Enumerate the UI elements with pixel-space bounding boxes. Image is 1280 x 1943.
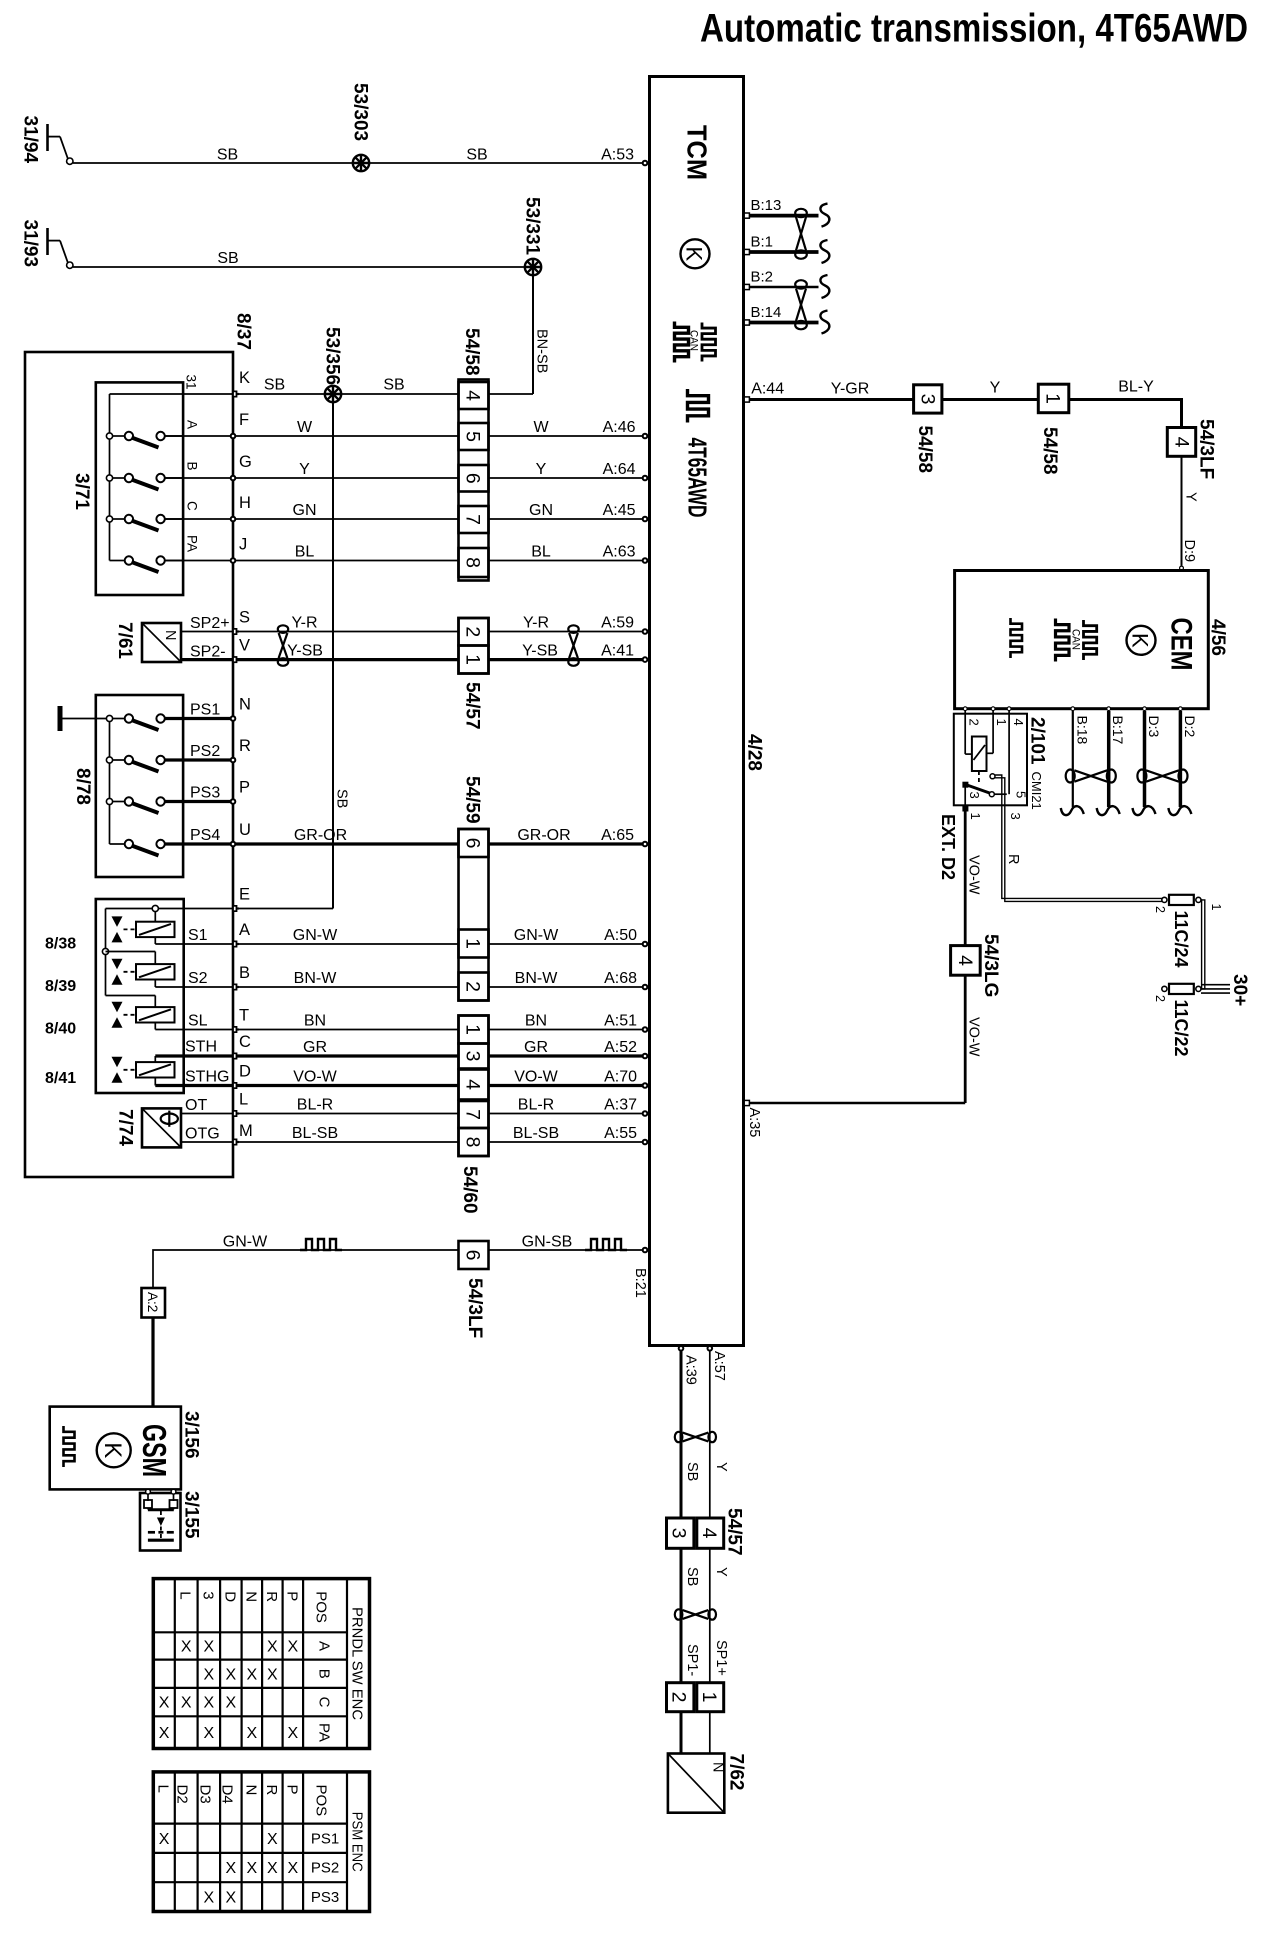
svg-text:SB: SB [217,147,238,164]
svg-text:31/94: 31/94 [20,116,41,164]
svg-text:PS2: PS2 [311,1860,339,1877]
svg-text:SB: SB [684,1567,700,1586]
svg-text:CEM: CEM [1165,618,1198,671]
svg-text:Y: Y [713,1567,729,1577]
svg-text:X: X [159,1695,170,1712]
svg-text:2: 2 [1153,906,1167,913]
svg-text:X: X [288,1638,299,1655]
svg-text:30+: 30+ [1229,974,1250,1006]
svg-text:53/331: 53/331 [522,197,543,256]
svg-text:Y-R: Y-R [291,615,317,632]
svg-text:SP2+: SP2+ [190,615,230,632]
svg-text:1: 1 [462,938,484,949]
svg-text:54/3LG: 54/3LG [980,934,1001,997]
svg-text:X: X [247,1666,258,1683]
svg-text:VO-W: VO-W [514,1069,558,1086]
svg-text:CAN: CAN [1070,629,1082,650]
svg-text:BL-Y: BL-Y [1118,378,1154,395]
svg-text:Y: Y [713,1462,729,1472]
svg-text:2: 2 [1153,995,1167,1002]
svg-text:4/56: 4/56 [1207,619,1228,656]
svg-text:54/3LF: 54/3LF [1196,419,1217,479]
svg-text:1: 1 [1209,904,1223,911]
svg-text:N: N [710,1762,726,1772]
svg-text:PS4: PS4 [190,827,220,844]
svg-text:A:39: A:39 [683,1355,699,1385]
svg-text:BN: BN [304,1013,326,1030]
svg-text:4: 4 [462,390,484,401]
svg-text:L: L [177,1591,194,1599]
svg-text:X: X [204,1666,215,1683]
svg-text:B:2: B:2 [751,269,774,286]
svg-text:3: 3 [668,1528,690,1539]
svg-text:3: 3 [967,792,982,799]
svg-text:P: P [283,1591,300,1601]
svg-text:GSM: GSM [136,1424,173,1477]
svg-text:GN-W: GN-W [293,927,338,944]
svg-text:3/71: 3/71 [71,473,92,510]
svg-text:31/93: 31/93 [20,220,41,268]
svg-text:TCM: TCM [682,125,713,180]
svg-text:T: T [239,1007,249,1025]
svg-text:BL: BL [295,544,315,561]
svg-text:1: 1 [968,813,983,820]
svg-text:PA: PA [185,535,200,552]
svg-text:B: B [239,964,250,982]
svg-text:A:50: A:50 [604,927,637,944]
svg-text:S2: S2 [188,970,208,987]
svg-text:M: M [239,1122,253,1140]
svg-text:BL-SB: BL-SB [292,1125,338,1142]
svg-text:BN-W: BN-W [515,970,559,987]
svg-text:Y-SB: Y-SB [287,643,323,660]
svg-text:54/59: 54/59 [462,776,483,824]
svg-text:H: H [239,494,251,512]
svg-text:B:21: B:21 [632,1268,648,1298]
svg-text:4: 4 [1171,437,1193,448]
svg-text:X: X [204,1695,215,1712]
svg-text:EXT. D2: EXT. D2 [938,814,958,880]
svg-text:P: P [239,779,250,797]
svg-text:STH: STH [185,1039,217,1056]
svg-text:54/57: 54/57 [724,1508,745,1556]
svg-text:K: K [99,1442,126,1458]
svg-text:R: R [263,1785,280,1796]
svg-text:3: 3 [199,1591,216,1599]
svg-text:6: 6 [462,838,484,849]
svg-text:SB: SB [383,377,404,394]
svg-text:BN: BN [525,1013,547,1030]
svg-text:3: 3 [917,394,939,405]
svg-text:N: N [162,630,178,640]
svg-text:1: 1 [462,654,484,665]
svg-text:Y-SB: Y-SB [522,643,558,660]
svg-text:A:64: A:64 [603,461,636,478]
svg-text:PRNDL SW ENC: PRNDL SW ENC [348,1607,365,1720]
svg-text:SB: SB [684,1462,700,1481]
svg-text:A:45: A:45 [603,502,636,519]
svg-text:3/155: 3/155 [181,1491,202,1539]
svg-text:11C/22: 11C/22 [1171,1000,1191,1057]
svg-text:K: K [239,369,250,387]
svg-text:Y: Y [299,461,310,478]
svg-text:4: 4 [1011,719,1026,726]
svg-text:8: 8 [462,557,484,568]
svg-text:X: X [226,1889,237,1906]
svg-text:X: X [181,1695,192,1712]
svg-text:7: 7 [462,1109,484,1120]
svg-text:X: X [267,1638,278,1655]
svg-text:SL: SL [188,1013,208,1030]
svg-text:A: A [239,921,250,939]
svg-text:8/78: 8/78 [72,768,93,805]
svg-text:D: D [221,1591,238,1602]
svg-text:Y: Y [536,461,547,478]
svg-text:P: P [283,1785,300,1795]
svg-text:R: R [263,1591,280,1602]
svg-text:7: 7 [462,514,484,525]
svg-text:7/62: 7/62 [726,1754,747,1791]
svg-text:GN: GN [529,502,553,519]
svg-text:GR: GR [303,1039,327,1056]
svg-text:A:68: A:68 [604,970,637,987]
svg-text:8/41: 8/41 [45,1070,76,1087]
svg-text:D2: D2 [174,1785,191,1804]
svg-text:4T65AWD: 4T65AWD [683,438,713,518]
svg-text:54/60: 54/60 [459,1166,480,1214]
svg-text:X: X [247,1860,258,1877]
svg-text:S: S [239,609,250,627]
svg-text:D4: D4 [218,1785,235,1804]
svg-text:BN-W: BN-W [294,970,338,987]
svg-text:SP2-: SP2- [190,644,226,661]
svg-text:B:1: B:1 [751,234,774,251]
svg-text:1: 1 [1042,393,1064,404]
svg-text:Y-GR: Y-GR [831,380,870,397]
svg-text:D:3: D:3 [1146,716,1162,738]
svg-text:BL-SB: BL-SB [513,1125,559,1142]
svg-text:B:14: B:14 [751,304,782,321]
svg-text:7/74: 7/74 [115,1109,136,1146]
svg-text:A:2: A:2 [145,1292,160,1312]
svg-text:POS: POS [313,1785,330,1817]
svg-text:A:65: A:65 [601,827,634,844]
svg-text:54/58: 54/58 [461,328,482,376]
svg-text:8/38: 8/38 [45,936,76,953]
svg-text:V: V [239,637,250,655]
svg-text:C: C [316,1697,333,1708]
svg-text:53/356: 53/356 [322,327,343,385]
svg-text:PA: PA [316,1723,333,1742]
svg-text:2: 2 [668,1692,690,1703]
svg-text:A:59: A:59 [601,615,634,632]
svg-text:C: C [239,1033,251,1051]
svg-text:A:46: A:46 [603,419,636,436]
svg-text:3: 3 [1008,813,1023,820]
svg-text:E: E [239,886,250,904]
svg-text:W: W [533,419,549,436]
svg-text:Automatic transmission, 4T65AW: Automatic transmission, 4T65AWD [700,7,1248,51]
svg-text:GR-OR: GR-OR [517,827,570,844]
svg-text:X: X [226,1695,237,1712]
svg-text:4: 4 [954,955,976,966]
svg-text:A:52: A:52 [604,1039,637,1056]
svg-text:5: 5 [462,431,484,442]
svg-text:8: 8 [462,1137,484,1148]
svg-text:SP1-: SP1- [684,1644,700,1676]
svg-text:X: X [204,1725,215,1742]
svg-text:5: 5 [1014,791,1029,798]
svg-text:X: X [267,1666,278,1683]
svg-text:6: 6 [462,1250,484,1261]
svg-text:PS3: PS3 [190,785,220,802]
svg-text:L: L [155,1785,172,1793]
svg-text:A:51: A:51 [604,1013,637,1030]
svg-text:N: N [242,1785,259,1796]
svg-text:A:44: A:44 [751,380,784,397]
svg-text:X: X [159,1725,170,1742]
svg-text:S1: S1 [188,927,208,944]
svg-text:VO-W: VO-W [966,1017,982,1057]
svg-text:BN-SB: BN-SB [534,329,550,373]
svg-text:SB: SB [264,377,285,394]
svg-text:X: X [159,1831,170,1848]
svg-text:D:2: D:2 [1182,716,1198,738]
svg-text:X: X [226,1860,237,1877]
svg-text:BL: BL [531,544,551,561]
svg-text:VO-W: VO-W [966,855,982,895]
svg-text:D3: D3 [196,1785,213,1804]
svg-text:X: X [226,1666,237,1683]
svg-text:B: B [316,1669,333,1679]
svg-text:6: 6 [462,473,484,484]
svg-text:CAN: CAN [688,330,700,351]
svg-text:X: X [267,1860,278,1877]
svg-text:7/61: 7/61 [114,622,135,659]
svg-text:C: C [185,501,200,511]
svg-text:R: R [1005,854,1021,864]
svg-text:54/58: 54/58 [1039,427,1060,475]
svg-text:K: K [1128,633,1153,648]
svg-text:A: A [316,1641,333,1651]
svg-text:X: X [204,1638,215,1655]
svg-text:GN: GN [293,502,317,519]
svg-text:BL-R: BL-R [518,1097,554,1114]
svg-text:4/28: 4/28 [744,734,765,771]
svg-text:F: F [239,411,249,429]
svg-text:2/101: 2/101 [1027,717,1048,765]
svg-text:GN-W: GN-W [514,927,559,944]
svg-text:OTG: OTG [185,1126,220,1143]
svg-text:G: G [239,453,252,471]
svg-text:53/303: 53/303 [350,83,371,141]
svg-text:3/156: 3/156 [181,1411,202,1459]
svg-text:PS1: PS1 [190,702,220,719]
svg-text:GN-W: GN-W [223,1234,268,1251]
svg-text:R: R [239,737,251,755]
svg-text:8/37: 8/37 [233,313,254,350]
svg-text:4: 4 [698,1528,720,1539]
svg-text:D: D [239,1063,251,1081]
svg-text:SP1+: SP1+ [713,1640,729,1676]
svg-text:A:55: A:55 [604,1125,637,1142]
svg-text:3: 3 [462,1051,484,1062]
svg-text:GR-OR: GR-OR [294,827,347,844]
svg-text:L: L [239,1091,248,1109]
svg-text:Y: Y [1183,492,1199,502]
svg-text:31: 31 [184,375,199,390]
svg-text:2: 2 [462,981,484,992]
svg-text:A:53: A:53 [601,147,634,164]
svg-text:8/40: 8/40 [45,1021,76,1038]
svg-text:POS: POS [313,1591,330,1623]
svg-text:N: N [242,1591,259,1602]
svg-text:Y: Y [990,379,1001,396]
svg-text:SB: SB [217,250,238,267]
svg-text:4: 4 [462,1079,484,1090]
svg-text:J: J [239,536,247,554]
svg-text:1: 1 [462,1024,484,1035]
svg-text:SB: SB [466,147,487,164]
svg-text:B: B [185,462,200,471]
svg-text:PS3: PS3 [311,1889,339,1906]
svg-text:X: X [288,1860,299,1877]
svg-text:54/58: 54/58 [914,426,935,474]
svg-text:X: X [204,1889,215,1906]
svg-text:1: 1 [698,1692,720,1703]
svg-text:1: 1 [994,719,1009,726]
svg-text:X: X [267,1831,278,1848]
svg-text:OT: OT [185,1097,207,1114]
svg-text:BL-R: BL-R [297,1097,333,1114]
svg-text:X: X [247,1725,258,1742]
svg-text:A:41: A:41 [601,643,634,660]
svg-text:A:35: A:35 [746,1108,762,1138]
svg-text:A:37: A:37 [604,1097,637,1114]
svg-text:GN-SB: GN-SB [522,1234,573,1251]
svg-text:2: 2 [462,626,484,637]
svg-text:K: K [682,246,707,261]
svg-text:B:13: B:13 [751,197,782,214]
svg-text:W: W [297,419,313,436]
svg-text:U: U [239,821,251,839]
svg-text:A:70: A:70 [604,1069,637,1086]
svg-text:PSM ENC: PSM ENC [348,1812,365,1872]
svg-text:PS2: PS2 [190,743,220,760]
svg-text:Y-R: Y-R [523,615,549,632]
svg-text:STHG: STHG [185,1069,229,1086]
svg-text:B:18: B:18 [1074,716,1090,745]
svg-text:N: N [239,696,251,714]
svg-text:X: X [181,1638,192,1655]
svg-text:A: A [185,420,200,429]
svg-text:54/57: 54/57 [462,682,483,730]
svg-text:PS1: PS1 [311,1830,339,1847]
svg-text:2: 2 [967,719,982,726]
svg-text:A:63: A:63 [603,544,636,561]
svg-text:A:57: A:57 [711,1351,727,1381]
svg-text:X: X [288,1725,299,1742]
svg-text:GR: GR [524,1039,548,1056]
svg-text:B:17: B:17 [1110,716,1126,745]
svg-text:54/3LF: 54/3LF [464,1278,485,1338]
svg-text:CMI21: CMI21 [1029,772,1044,810]
svg-text:11C/24: 11C/24 [1171,911,1191,968]
svg-text:SB: SB [334,789,350,808]
svg-text:VO-W: VO-W [293,1069,337,1086]
svg-text:D:9: D:9 [1181,540,1197,563]
svg-text:8/39: 8/39 [45,978,76,995]
